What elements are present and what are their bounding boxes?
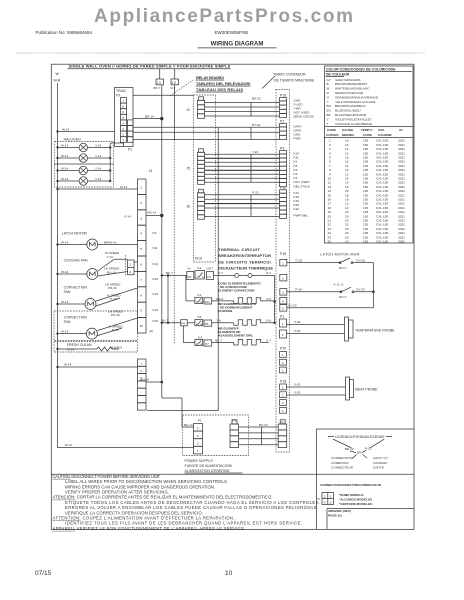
svg-text:P6: P6 bbox=[181, 322, 185, 326]
svg-text:BL-7: BL-7 bbox=[215, 338, 222, 342]
element collector vertical bbox=[274, 276, 276, 323]
svg-text:P2: P2 bbox=[280, 120, 284, 124]
svg-text:W-14: W-14 bbox=[67, 348, 75, 352]
svg-text:BK-7: BK-7 bbox=[166, 271, 173, 275]
cooling fan motor bbox=[56, 259, 127, 279]
J3 right pin labels bbox=[153, 231, 159, 323]
svg-text:10: 10 bbox=[140, 324, 144, 328]
svg-text:P1: P1 bbox=[280, 315, 284, 319]
wire triac out 3 bbox=[133, 139, 215, 141]
rev box bbox=[327, 508, 414, 510]
svg-text:W-14: W-14 bbox=[61, 240, 69, 244]
broil feed vertical bbox=[182, 326, 184, 343]
svg-text:K11: K11 bbox=[153, 246, 159, 250]
connector J2 pins bbox=[198, 97, 205, 119]
connector box separator bbox=[316, 473, 414, 475]
svg-text:LEGEND/LEYENDA/LEGENDE: LEGEND/LEYENDA/LEGENDE bbox=[335, 435, 385, 439]
wires J6 to P12 bbox=[205, 195, 280, 217]
svg-text:K18: K18 bbox=[153, 277, 159, 281]
svg-text:1: 1 bbox=[282, 322, 284, 326]
legend title dash right bbox=[386, 436, 392, 438]
svg-text:P-14: P-14 bbox=[112, 328, 119, 332]
svg-text:4: 4 bbox=[197, 426, 199, 430]
svg-text:2: 2 bbox=[140, 369, 142, 373]
svg-text:DE COULEUR: DE COULEUR bbox=[326, 73, 350, 77]
thermal circuit breaker symbol bbox=[235, 274, 239, 278]
legend title flourish right bbox=[370, 439, 384, 448]
K2 P11 box bbox=[204, 298, 212, 304]
svg-text:W-14: W-14 bbox=[65, 443, 73, 447]
svg-text:P20: P20 bbox=[280, 347, 286, 351]
leader line relay board bbox=[170, 80, 193, 96]
K5 P8 box bbox=[204, 320, 212, 326]
svg-text:38002082 (REV): 38002082 (REV) bbox=[328, 509, 351, 513]
svg-text:W-14: W-14 bbox=[120, 185, 128, 189]
svg-text:W-14: W-14 bbox=[61, 270, 69, 274]
svg-text:THERMAL CIRCUIT: THERMAL CIRCUIT bbox=[218, 247, 261, 252]
conv element label bbox=[218, 281, 261, 292]
svg-text:BY-22: BY-22 bbox=[252, 123, 261, 127]
svg-text:1: 1 bbox=[282, 386, 284, 390]
connector box notes bbox=[339, 493, 372, 506]
svg-text:TABLEAU DES RELAIS: TABLEAU DES RELAIS bbox=[196, 87, 243, 92]
power supply dashed box bbox=[183, 415, 249, 456]
svg-text:GY-20: GY-20 bbox=[356, 288, 365, 292]
triac box bbox=[115, 88, 134, 147]
wire neutral to power supply bbox=[58, 447, 194, 449]
svg-text:CODE: CODE bbox=[327, 128, 336, 132]
header separator dotted line bbox=[16, 52, 425, 54]
svg-text:IN: IN bbox=[188, 266, 191, 270]
title underline bbox=[198, 47, 277, 49]
svg-text:K19: K19 bbox=[153, 292, 159, 296]
svg-text:4: 4 bbox=[282, 409, 284, 413]
svg-text:1: 1 bbox=[330, 495, 332, 499]
svg-text:LATCH MOTOR MGR: LATCH MOTOR MGR bbox=[320, 253, 359, 257]
terminal L2 bbox=[171, 79, 179, 85]
svg-text:CODIGO: CODIGO bbox=[326, 133, 339, 137]
svg-text:L1: L1 bbox=[157, 81, 161, 85]
K3 P7 box bbox=[204, 340, 212, 346]
wire DLB input drop to bake row bbox=[167, 276, 169, 323]
svg-text:PWR: PWR bbox=[294, 137, 302, 141]
wire cooling to J3 stubs bbox=[134, 261, 138, 263]
relay board boundary vertical bbox=[214, 95, 216, 262]
svg-text:L2: L2 bbox=[172, 81, 176, 85]
board boundary dash vertical bbox=[173, 140, 175, 346]
svg-text:7: 7 bbox=[122, 99, 124, 103]
svg-text:CONVECTION: CONVECTION bbox=[64, 316, 88, 320]
halogen lamp 4 bbox=[56, 177, 111, 185]
triac aux pin column P1 bbox=[128, 120, 134, 152]
svg-text:2: 2 bbox=[282, 333, 284, 337]
svg-text:BK-7: BK-7 bbox=[154, 86, 161, 90]
boundary dash segment bbox=[125, 255, 127, 276]
svg-text:10: 10 bbox=[345, 240, 349, 244]
wires J2 to P16 bbox=[205, 103, 280, 117]
power supply label bbox=[185, 459, 233, 473]
wires V-30 to temperature probe bbox=[287, 324, 345, 326]
svg-text:A. D. S.: A. D. S. bbox=[333, 283, 344, 287]
svg-text:AppliancePartsPros.com: AppliancePartsPros.com bbox=[94, 6, 353, 27]
svg-text:POWER SUPPLY/: POWER SUPPLY/ bbox=[185, 459, 214, 463]
svg-text:5: 5 bbox=[282, 307, 284, 311]
svg-text:BK-14: BK-14 bbox=[148, 211, 157, 215]
connector P1 pins bbox=[280, 319, 287, 338]
wire L2 stub bbox=[174, 69, 176, 79]
wire GY-20 bottom bbox=[287, 307, 374, 309]
svg-text:BK-22: BK-22 bbox=[259, 423, 268, 427]
legend connection label bbox=[331, 456, 354, 469]
svg-text:CALIBRE: CALIBRE bbox=[378, 133, 392, 137]
svg-text:BR/W-14: BR/W-14 bbox=[104, 240, 117, 244]
svg-text:LATCH MOTOR: LATCH MOTOR bbox=[62, 232, 88, 236]
broil element wire bbox=[212, 342, 234, 344]
gauge table headers bbox=[326, 128, 403, 137]
connector P12 pins bbox=[280, 190, 287, 219]
control board dashed box bbox=[276, 90, 290, 453]
svg-text:V: V bbox=[327, 117, 330, 121]
svg-text:NO C: NO C bbox=[339, 266, 348, 270]
svg-text:10: 10 bbox=[225, 570, 233, 577]
svg-text:TEMPERATURE PROBE: TEMPERATURE PROBE bbox=[355, 329, 395, 333]
tie J2 bundle bbox=[250, 103, 252, 117]
svg-text:FR-6: FR-6 bbox=[216, 297, 223, 301]
wire triac feed down to J4 bbox=[147, 127, 218, 410]
svg-text:FAN: FAN bbox=[64, 320, 71, 324]
svg-text:J3: J3 bbox=[149, 169, 153, 173]
meat probe symbol bbox=[346, 377, 350, 400]
svg-text:O-7: O-7 bbox=[266, 338, 271, 342]
conv element wire bbox=[212, 300, 234, 302]
connector J3 pins bbox=[138, 179, 147, 333]
svg-text:K20: K20 bbox=[153, 319, 159, 323]
svg-text:RED/ROJO/ROUGE: RED/ROJO/ROUGE bbox=[335, 91, 363, 95]
svg-text:F-14: F-14 bbox=[125, 215, 132, 219]
svg-text:Y: Y bbox=[327, 100, 329, 104]
svg-text:P9: P9 bbox=[116, 94, 120, 98]
temperature probe symbol bbox=[345, 317, 349, 341]
halogen lamp 2 bbox=[56, 154, 111, 162]
svg-text:P-22: P-22 bbox=[252, 190, 259, 194]
svg-text:DISJUACTEUR THERMIQUE: DISJUACTEUR THERMIQUE bbox=[218, 265, 273, 270]
svg-text:K9: K9 bbox=[153, 231, 157, 235]
svg-text:3321: 3321 bbox=[398, 240, 405, 244]
svg-text:K1: K1 bbox=[198, 266, 202, 270]
svg-text:ZERO CROSS: ZERO CROSS bbox=[294, 115, 314, 119]
svg-text:FAN: FAN bbox=[64, 290, 71, 294]
legend title dash left bbox=[328, 436, 334, 438]
svg-text:BR-22: BR-22 bbox=[345, 447, 354, 451]
svg-text:K2: K2 bbox=[198, 293, 202, 297]
connector P8 pins bbox=[278, 420, 287, 448]
wire BK to P6 box bbox=[162, 322, 181, 324]
svg-text:BN: BN bbox=[327, 104, 331, 108]
legend title flourish left bbox=[333, 439, 351, 448]
wire triac out 1 bbox=[133, 126, 215, 128]
svg-text:Y-14: Y-14 bbox=[95, 177, 102, 181]
wires triac to P2 bbox=[215, 127, 279, 139]
svg-text:K19: K19 bbox=[153, 308, 159, 312]
svg-text:W10M-5: W10M-5 bbox=[111, 346, 123, 350]
svg-text:5: 5 bbox=[140, 247, 142, 251]
svg-text:2: 2 bbox=[324, 495, 326, 499]
svg-text:CONNECTEUR: CONNECTEUR bbox=[331, 465, 354, 469]
svg-text:3: 3 bbox=[282, 401, 284, 405]
svg-text:P1: P1 bbox=[198, 419, 202, 423]
wire L2 R-7 vertical bbox=[174, 85, 176, 140]
timer label bbox=[273, 73, 315, 83]
svg-text:NO C: NO C bbox=[339, 295, 348, 299]
conv element symbol bbox=[234, 298, 275, 304]
svg-text:1: 1 bbox=[282, 261, 284, 265]
svg-text:PWR NBL: PWR NBL bbox=[294, 214, 308, 218]
connector P16 pins bbox=[280, 98, 287, 118]
svg-text:P19: P19 bbox=[280, 252, 286, 256]
svg-text:BK-22: BK-22 bbox=[252, 97, 261, 101]
svg-text:O: O bbox=[327, 95, 330, 99]
svg-text:O-20: O-20 bbox=[295, 258, 302, 262]
svg-text:P3: P3 bbox=[188, 275, 192, 279]
svg-text:Publication No: 5995664694: Publication No: 5995664694 bbox=[36, 30, 93, 35]
svg-text:8: 8 bbox=[122, 105, 124, 109]
svg-text:GY: GY bbox=[327, 78, 331, 82]
tie P6 bundle bbox=[261, 427, 263, 445]
svg-text:6: 6 bbox=[140, 263, 142, 267]
wire BK-14 into P1 bbox=[182, 426, 194, 428]
svg-text:J2: J2 bbox=[186, 108, 190, 112]
connector P2 pins bbox=[280, 124, 287, 140]
svg-text:B: B bbox=[327, 82, 329, 86]
svg-text:P16: P16 bbox=[280, 94, 286, 98]
svg-text:V-20: V-20 bbox=[294, 391, 301, 395]
svg-text:K14: K14 bbox=[153, 262, 159, 266]
svg-text:K3: K3 bbox=[198, 335, 202, 339]
junction dot BR-14 on BK-7 bbox=[160, 117, 163, 120]
svg-text:J5: J5 bbox=[186, 167, 190, 171]
broil element label bbox=[218, 326, 253, 337]
gauge table separator bbox=[325, 126, 414, 128]
svg-text:5: 5 bbox=[122, 116, 124, 120]
svg-text:W-14: W-14 bbox=[61, 300, 69, 304]
cooling fan aux connector bbox=[128, 260, 135, 275]
wire W-14 to J3 pin1 bbox=[58, 188, 138, 190]
svg-text:BU-14: BU-14 bbox=[107, 270, 116, 274]
svg-text:K5: K5 bbox=[198, 315, 202, 319]
wire J3 pin3 to BK line bbox=[146, 215, 162, 217]
wire DLB out bbox=[214, 275, 235, 277]
svg-text:O-7: O-7 bbox=[266, 271, 271, 275]
svg-text:1: 1 bbox=[140, 186, 142, 190]
svg-text:2: 2 bbox=[140, 201, 142, 205]
svg-text:W: W bbox=[56, 72, 60, 76]
svg-text:6: 6 bbox=[122, 110, 124, 114]
P12 right labels bbox=[294, 191, 308, 218]
junction dot bake element bbox=[273, 322, 275, 324]
svg-text:4: 4 bbox=[140, 232, 142, 236]
svg-text:DLB: DLB bbox=[195, 257, 202, 261]
color code table box bbox=[325, 66, 414, 243]
svg-text:1: 1 bbox=[122, 138, 124, 142]
svg-text:2: 2 bbox=[197, 442, 199, 446]
svg-text:1: 1 bbox=[282, 353, 284, 357]
svg-text:W-14: W-14 bbox=[61, 329, 69, 333]
halogen lamp bus bbox=[109, 143, 111, 182]
P2 right labels bbox=[294, 125, 303, 141]
fresh clean dashed box bbox=[54, 342, 138, 353]
svg-text:CONVECTION: CONVECTION bbox=[64, 286, 88, 290]
svg-text:2: 2 bbox=[130, 270, 132, 274]
svg-text:R-22: R-22 bbox=[365, 447, 372, 451]
svg-text:W-14: W-14 bbox=[61, 177, 69, 181]
latch right vertical wire bbox=[372, 263, 374, 308]
connector icon bbox=[322, 493, 334, 505]
svg-text:MEDIDA: MEDIDA bbox=[342, 133, 355, 137]
fresh clean element bbox=[84, 347, 119, 351]
connector P19 pins bbox=[280, 259, 287, 311]
convection fan 2 dashed box bbox=[54, 311, 138, 341]
svg-text:P1: P1 bbox=[207, 275, 211, 279]
svg-text:COOLING FAN: COOLING FAN bbox=[64, 259, 88, 263]
svg-text:7: 7 bbox=[140, 278, 142, 282]
broil element symbol bbox=[234, 339, 269, 345]
svg-text:RELAY BOARD/: RELAY BOARD/ bbox=[196, 75, 225, 80]
connector J5 pins bbox=[198, 149, 205, 185]
bake P6 box bbox=[181, 320, 188, 326]
svg-text:CUISSON: CUISSON bbox=[218, 309, 233, 313]
svg-text:W-14: W-14 bbox=[61, 166, 69, 170]
P9 right labels bbox=[294, 152, 311, 189]
svg-text:3: 3 bbox=[282, 291, 284, 295]
banner underline bbox=[68, 68, 231, 70]
svg-text:R-7: R-7 bbox=[171, 86, 176, 90]
legend divider vertical bbox=[315, 429, 317, 529]
svg-text:OUT: OUT bbox=[207, 266, 214, 270]
svg-text:APPAREIL VERIFIEZ LE BON FONCT: APPAREIL VERIFIEZ LE BON FONCTIONNEMENT … bbox=[53, 526, 246, 531]
svg-text:ORANGE/NARANJA/ORANGE: ORANGE/NARANJA/ORANGE bbox=[335, 95, 378, 99]
connector P9 pins bbox=[280, 151, 287, 187]
wire triac out 2 bbox=[133, 131, 215, 133]
svg-text:3: 3 bbox=[282, 369, 284, 373]
svg-text:4: 4 bbox=[122, 121, 124, 125]
svg-text:V-30: V-30 bbox=[294, 329, 301, 333]
svg-text:P6: P6 bbox=[233, 419, 237, 423]
relay board label bbox=[196, 75, 251, 92]
diagram outer frame bbox=[51, 64, 414, 529]
junction dot latch bbox=[372, 291, 375, 294]
svg-text:COLOR CODE/CODIGO DE COLOR/COD: COLOR CODE/CODIGO DE COLOR/CODE bbox=[326, 68, 396, 72]
svg-text:J4: J4 bbox=[149, 330, 153, 334]
svg-text:CONNECTOR/CONECTOR/CONNECTEUR: CONNECTOR/CONECTOR/CONNECTEUR bbox=[320, 483, 382, 487]
svg-text:NBL STALK: NBL STALK bbox=[294, 184, 311, 188]
svg-text:O-6: O-6 bbox=[266, 319, 271, 323]
svg-text:BK: BK bbox=[327, 113, 332, 117]
svg-text:PN-16: PN-16 bbox=[111, 313, 120, 317]
leader line timer bbox=[262, 76, 275, 89]
svg-text:SINGLE WALL OVEN // HORNO DE P: SINGLE WALL OVEN // HORNO DE PARED SIMPL… bbox=[69, 63, 231, 68]
svg-text:TABLERO DEL RELEVADOR/: TABLERO DEL RELEVADOR/ bbox=[196, 81, 251, 86]
tie P2 bundle bbox=[250, 127, 252, 139]
svg-text:BU: BU bbox=[327, 109, 331, 113]
svg-text:GY-20: GY-20 bbox=[288, 304, 297, 308]
svg-text:3: 3 bbox=[122, 127, 124, 131]
svg-text:EW30EW55PSB: EW30EW55PSB bbox=[215, 30, 249, 35]
svg-text:BREAKER/INTERRUPTOR: BREAKER/INTERRUPTOR bbox=[218, 253, 271, 258]
svg-text:CAVITY(?): CAVITY(?) bbox=[373, 456, 388, 460]
connector J6 pins bbox=[198, 189, 205, 219]
svg-text:CAVITE: CAVITE bbox=[373, 465, 384, 469]
svg-text:GAUGE: GAUGE bbox=[342, 128, 353, 132]
svg-text:2: 2 bbox=[282, 361, 284, 365]
connector P18 pins bbox=[280, 384, 287, 413]
svg-text:WHITE/BLANCA/BLANC: WHITE/BLANCA/BLANC bbox=[335, 87, 370, 91]
svg-text:TEMP C: TEMP C bbox=[361, 128, 373, 132]
terminal L1 bbox=[156, 79, 164, 85]
svg-text:8: 8 bbox=[140, 293, 142, 297]
svg-text:07/15: 07/15 bbox=[35, 570, 52, 577]
thermal circuit breaker label bbox=[218, 247, 273, 270]
wire BR-14 from triac bbox=[133, 118, 162, 120]
svg-text:*CERTAINS MODELES: *CERTAINS MODELES bbox=[339, 502, 372, 506]
latch motor bbox=[56, 239, 137, 250]
svg-text:ELEMENT CONVECTION: ELEMENT CONVECTION bbox=[218, 288, 255, 292]
wire L1 stub bbox=[159, 69, 161, 79]
svg-text:CH-20: CH-20 bbox=[356, 259, 365, 263]
svg-text:4: 4 bbox=[324, 501, 326, 505]
svg-text:Y-14: Y-14 bbox=[107, 255, 114, 259]
svg-text:W-B: W-B bbox=[54, 79, 61, 83]
svg-text:BROWN/CAFE/BRUN: BROWN/CAFE/BRUN bbox=[335, 104, 366, 108]
caution box top line bbox=[51, 473, 316, 475]
svg-text:FRESH CLEAN: FRESH CLEAN bbox=[67, 343, 92, 347]
svg-text:BLUE/AZUL/BLEU: BLUE/AZUL/BLEU bbox=[335, 109, 361, 113]
svg-text:2: 2 bbox=[130, 263, 132, 267]
convection fan 1 motor bbox=[56, 283, 137, 310]
svg-text:O-7: O-7 bbox=[218, 271, 223, 275]
svg-text:BLACK/NEGRO/NOIR: BLACK/NEGRO/NOIR bbox=[335, 113, 367, 117]
svg-text:ALIMENTATION D'ENERGIE: ALIMENTATION D'ENERGIE bbox=[185, 469, 231, 473]
svg-text:GREY/GRIS/GRIS: GREY/GRIS/GRIS bbox=[335, 78, 361, 82]
svg-text:CXL-150: CXL-150 bbox=[376, 240, 388, 244]
svg-text:3: 3 bbox=[140, 216, 142, 220]
bake element wire bbox=[212, 322, 234, 324]
svg-text:P-14: P-14 bbox=[110, 297, 117, 301]
svg-text:26: 26 bbox=[328, 240, 332, 244]
svg-text:J6: J6 bbox=[186, 205, 190, 209]
latch switch GY-20 bbox=[341, 287, 351, 292]
svg-text:V-20: V-20 bbox=[294, 383, 301, 387]
latch switch CH-20 bbox=[340, 258, 350, 263]
svg-text:CONEXION/: CONEXION/ bbox=[331, 461, 349, 465]
svg-text:DE CIRCUITO TERMICO/: DE CIRCUITO TERMICO/ bbox=[218, 259, 272, 264]
DLB P1 box bbox=[207, 272, 214, 280]
connector PS P1 pins bbox=[194, 424, 203, 454]
wires J5 to P9 bbox=[205, 154, 280, 182]
connector J4 pins bbox=[138, 359, 147, 410]
svg-text:Y-8: Y-8 bbox=[216, 319, 221, 323]
wire L1 BK-7 vertical bbox=[161, 85, 163, 398]
P16 right labels bbox=[294, 99, 314, 119]
svg-text:4: 4 bbox=[282, 299, 284, 303]
svg-text:K22: K22 bbox=[294, 207, 300, 211]
svg-text:Y-14: Y-14 bbox=[95, 154, 102, 158]
svg-text:W-14: W-14 bbox=[62, 128, 70, 132]
svg-text:Y-14: Y-14 bbox=[95, 143, 102, 147]
junction dot neutral top bbox=[56, 130, 58, 132]
svg-text:BR-14: BR-14 bbox=[145, 115, 154, 119]
svg-text:TIMER/ CONTADOR: TIMER/ CONTADOR bbox=[273, 73, 306, 77]
svg-text:1: 1 bbox=[197, 449, 199, 453]
